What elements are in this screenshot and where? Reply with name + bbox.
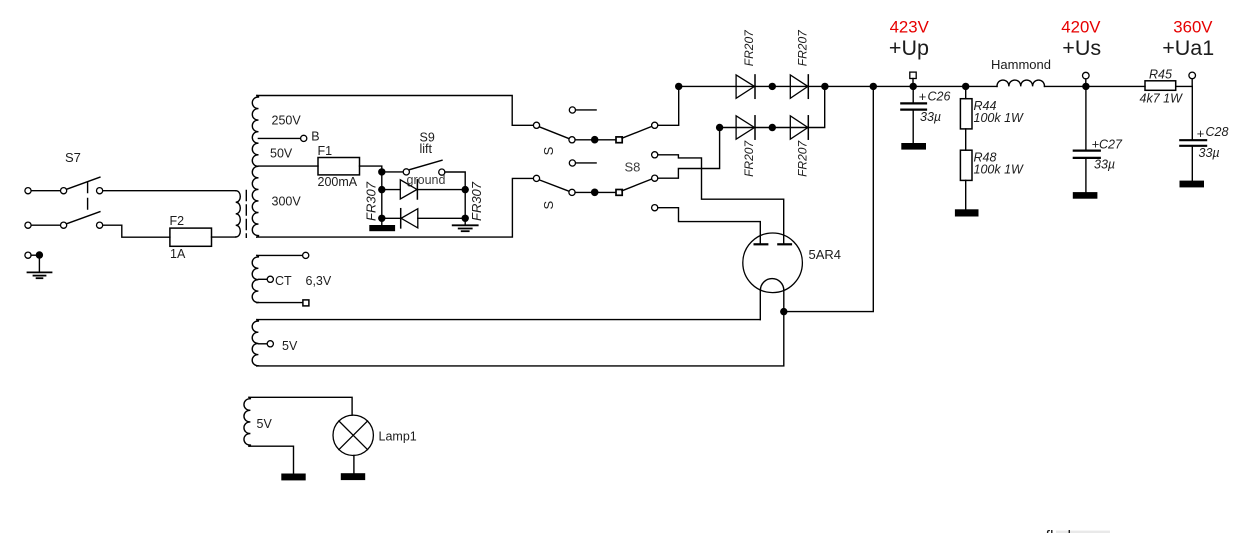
junction S9 bus top xyxy=(378,168,385,175)
S9 left bus xyxy=(381,172,383,225)
wire cathode down to 5V winding xyxy=(257,312,784,366)
earth symbol S9 xyxy=(453,225,478,231)
junction cathode xyxy=(780,308,787,315)
resistor R45 xyxy=(1140,68,1184,106)
capacitor C27 xyxy=(1073,86,1123,198)
svg-text:S: S xyxy=(541,201,556,210)
junction S9 bus low xyxy=(378,215,385,222)
wire neutral xyxy=(31,254,37,256)
svg-text:FR207: FR207 xyxy=(796,140,810,177)
S lower throw open xyxy=(569,160,575,166)
svg-text:+Up: +Up xyxy=(889,36,929,60)
svg-text:6,3V: 6,3V xyxy=(306,274,332,288)
5V lamp coil xyxy=(244,397,250,446)
svg-text:C26: C26 xyxy=(928,90,951,104)
S8 terminal 2 xyxy=(652,152,658,158)
svg-text:C28: C28 xyxy=(1206,125,1229,139)
svg-text:420V: 420V xyxy=(1061,18,1101,37)
svg-text:l: l xyxy=(1068,529,1072,533)
svg-text:FR207: FR207 xyxy=(742,29,756,66)
transformer T1 secondary HV winding xyxy=(252,96,258,238)
svg-text:F2: F2 xyxy=(170,214,185,228)
junction S9 bus mid xyxy=(378,186,385,193)
svg-text:300V: 300V xyxy=(272,195,302,209)
svg-text:+Ua1: +Ua1 xyxy=(1162,36,1214,60)
S8 terminal 4 xyxy=(652,205,658,211)
wire lamp to ground xyxy=(353,455,355,473)
choke Hammond xyxy=(997,80,1044,86)
junction row2 mid xyxy=(769,124,776,131)
fuse F1 xyxy=(318,158,360,175)
svg-text:1A: 1A xyxy=(170,247,186,261)
svg-text:Lamp1: Lamp1 xyxy=(379,429,417,443)
transformer core (dashed) xyxy=(245,191,247,238)
S7 pole2 terminal a xyxy=(25,222,31,228)
diode row 2 rail xyxy=(720,86,825,127)
tube plate left xyxy=(755,243,768,245)
HV rail top xyxy=(679,85,997,87)
ground bar winding xyxy=(281,474,305,481)
wire 6.3V bottom xyxy=(257,302,303,304)
wire S7 pole2 to fuse F2 xyxy=(103,225,170,237)
wire S9 to earth bus xyxy=(445,172,465,225)
wire heater left to 5V winding xyxy=(257,319,760,321)
S upper common rail xyxy=(575,139,616,141)
junction earth bus low xyxy=(462,215,469,222)
svg-text:33µ: 33µ xyxy=(1199,146,1220,160)
svg-text:S7: S7 xyxy=(65,150,81,165)
wire S8 t2 to tube plate right xyxy=(658,155,784,245)
resistor R44 xyxy=(960,83,1024,129)
transformer T1 primary winding xyxy=(236,191,241,237)
diode FR207 top2 xyxy=(790,75,808,98)
S9 terminal right xyxy=(439,169,445,175)
6.3V coil xyxy=(252,255,258,302)
node B tap wire xyxy=(258,137,300,139)
svg-text:FR307: FR307 xyxy=(469,181,484,221)
svg-text:360V: 360V xyxy=(1173,18,1213,37)
wire 5V lamp bottom xyxy=(249,446,294,473)
svg-text:250V: 250V xyxy=(272,114,302,128)
diode FR207 low1 xyxy=(736,116,755,139)
svg-text:FR207: FR207 xyxy=(742,140,756,177)
svg-text:33µ: 33µ xyxy=(920,110,941,124)
svg-text:S8: S8 xyxy=(625,159,641,174)
S7 pole2 terminal c xyxy=(97,222,103,228)
wire cathode to rail xyxy=(784,86,874,311)
S7 gang link (dashed) xyxy=(87,182,89,214)
wire 50V tap to fuse F1 xyxy=(258,165,318,167)
winding 5V rectifier heater xyxy=(252,320,298,366)
junction earth bus mid xyxy=(462,186,469,193)
switch S lower xyxy=(533,160,651,210)
fuse F2 xyxy=(170,228,212,246)
capacitor C28 xyxy=(1180,86,1229,187)
switch S upper xyxy=(533,107,651,155)
lamp Lamp1 xyxy=(333,415,417,480)
junction neutral xyxy=(36,251,43,258)
svg-text:lift: lift xyxy=(420,142,433,156)
rectifier tube 5AR4 xyxy=(743,233,841,320)
wire S8 t3 to diode row2 xyxy=(658,128,720,179)
svg-text:S: S xyxy=(541,146,556,155)
S upper blade in xyxy=(539,127,569,139)
S lower common left xyxy=(569,189,575,195)
wire S7 pole2 xyxy=(31,224,61,226)
ground bar C27 xyxy=(1073,192,1098,199)
wire secondary bottom to switch S xyxy=(257,178,534,237)
wire neutral to earth xyxy=(38,255,40,272)
svg-text:CT: CT xyxy=(275,274,292,288)
svg-text:200mA: 200mA xyxy=(318,175,358,189)
junction S lower xyxy=(591,189,599,197)
ground bar S9 left xyxy=(369,225,395,231)
wire 5V lamp top xyxy=(249,397,352,415)
tube heater arc xyxy=(760,279,783,291)
diode FR207 low2 xyxy=(790,116,808,139)
svg-text:5AR4: 5AR4 xyxy=(809,247,842,262)
diode FR307 upper xyxy=(382,180,465,199)
ground bar C28 xyxy=(1180,181,1205,188)
node +Us xyxy=(1061,18,1101,90)
S lower pole terminal xyxy=(533,175,539,181)
junction S upper xyxy=(591,136,599,144)
junction row2 left xyxy=(716,124,723,131)
svg-text:Hammond: Hammond xyxy=(991,57,1051,72)
winding 6.3V xyxy=(252,252,332,306)
svg-text:+: + xyxy=(1197,126,1205,141)
S lower blade out xyxy=(622,179,652,191)
wire S7 pole1 xyxy=(31,190,61,192)
node +Up xyxy=(889,18,930,90)
S8 terminal 3 xyxy=(652,175,658,181)
svg-text:B: B xyxy=(311,130,319,144)
lamp cross xyxy=(339,421,368,450)
svg-text:C27: C27 xyxy=(1099,137,1123,151)
S upper throw stub xyxy=(576,109,597,111)
S9 blade xyxy=(410,160,442,169)
svg-text:R45: R45 xyxy=(1149,68,1172,82)
wire S8 t4 to tube plate left xyxy=(658,208,761,245)
terminal 5V tap xyxy=(267,341,273,347)
svg-text:100k 1W: 100k 1W xyxy=(974,162,1025,176)
wire F1 to S9 bus xyxy=(360,166,382,172)
S upper common left xyxy=(569,137,575,143)
tube heater leg left xyxy=(759,290,761,319)
S7 pole1 terminal b xyxy=(61,188,67,194)
terminal CT xyxy=(267,276,273,282)
S7 pole1 terminal c xyxy=(97,188,103,194)
junction rail after top diodes xyxy=(821,83,828,90)
S8 terminal 1 xyxy=(652,122,658,128)
wire S7 pole1 to transformer xyxy=(103,190,236,192)
S lower throw stub xyxy=(576,162,597,164)
wire 5V tap xyxy=(258,343,267,345)
wire CT tap xyxy=(258,278,267,280)
diode FR307 lower xyxy=(382,209,465,228)
5V coil xyxy=(252,320,258,366)
svg-text:FR207: FR207 xyxy=(796,29,810,66)
S upper pole terminal xyxy=(533,122,539,128)
junction rail at S8 xyxy=(675,83,682,90)
tube heater leg right xyxy=(783,290,785,311)
svg-text:5V: 5V xyxy=(257,417,273,431)
S lower common rail xyxy=(575,191,616,193)
tube envelope xyxy=(743,233,803,293)
switch S9 xyxy=(385,131,465,225)
S upper blade out xyxy=(622,126,652,138)
ground bar C26 xyxy=(901,143,926,150)
S7 pole2 blade xyxy=(67,212,100,224)
switch S7 xyxy=(25,150,236,237)
svg-text:+Us: +Us xyxy=(1062,36,1101,60)
earth PE xyxy=(28,272,52,278)
svg-text:+: + xyxy=(919,89,927,104)
svg-text:ground: ground xyxy=(407,173,446,187)
svg-text:FR307: FR307 xyxy=(364,181,379,221)
S7 pole1 terminal a xyxy=(25,188,31,194)
wire S8 t1 to rail xyxy=(658,86,679,125)
terminal 6.3V top xyxy=(303,252,309,258)
svg-text:fl: fl xyxy=(1046,529,1054,533)
node +Ua1 xyxy=(1162,18,1214,87)
S lower blade in xyxy=(539,180,569,191)
svg-text:50V: 50V xyxy=(270,147,293,161)
wire bus to S9 xyxy=(385,171,403,173)
+Up stub xyxy=(912,79,914,87)
+Up pad xyxy=(910,72,916,78)
bottom cut text fragment xyxy=(1056,531,1110,533)
ground bar lamp xyxy=(341,473,365,480)
S upper throw open xyxy=(569,107,575,113)
capacitor C26 xyxy=(901,86,950,149)
node B terminal xyxy=(301,135,307,141)
resistor R48 xyxy=(955,129,1024,217)
svg-text:100k 1W: 100k 1W xyxy=(974,111,1025,125)
S7 pole1 blade xyxy=(67,177,100,189)
wire F2 to transformer primary xyxy=(212,236,236,238)
svg-text:33µ: 33µ xyxy=(1094,157,1115,171)
neutral terminal xyxy=(25,252,31,258)
lamp circle xyxy=(333,415,373,455)
terminal 6.3V bottom xyxy=(303,300,309,306)
S lower common right (square pad) xyxy=(616,190,622,196)
wire 6.3V top xyxy=(257,254,303,256)
wire secondary top to switch S xyxy=(257,96,533,126)
ground bar R48 xyxy=(955,209,979,216)
svg-text:4k7 1W: 4k7 1W xyxy=(1140,92,1184,106)
junction rail d1-d2 xyxy=(769,83,776,90)
S9 terminal left xyxy=(403,169,409,175)
svg-text:423V: 423V xyxy=(890,18,930,37)
winding 5V lamp xyxy=(244,397,352,480)
diode FR207 top1 xyxy=(736,75,755,98)
svg-text:5V: 5V xyxy=(282,339,298,353)
svg-text:F1: F1 xyxy=(318,144,333,158)
S7 pole2 terminal b xyxy=(61,222,67,228)
tube plate right xyxy=(778,243,791,245)
junction rail cathode feed xyxy=(870,83,877,90)
S upper common right (square pad) xyxy=(616,137,622,143)
junction C26 xyxy=(910,83,917,90)
